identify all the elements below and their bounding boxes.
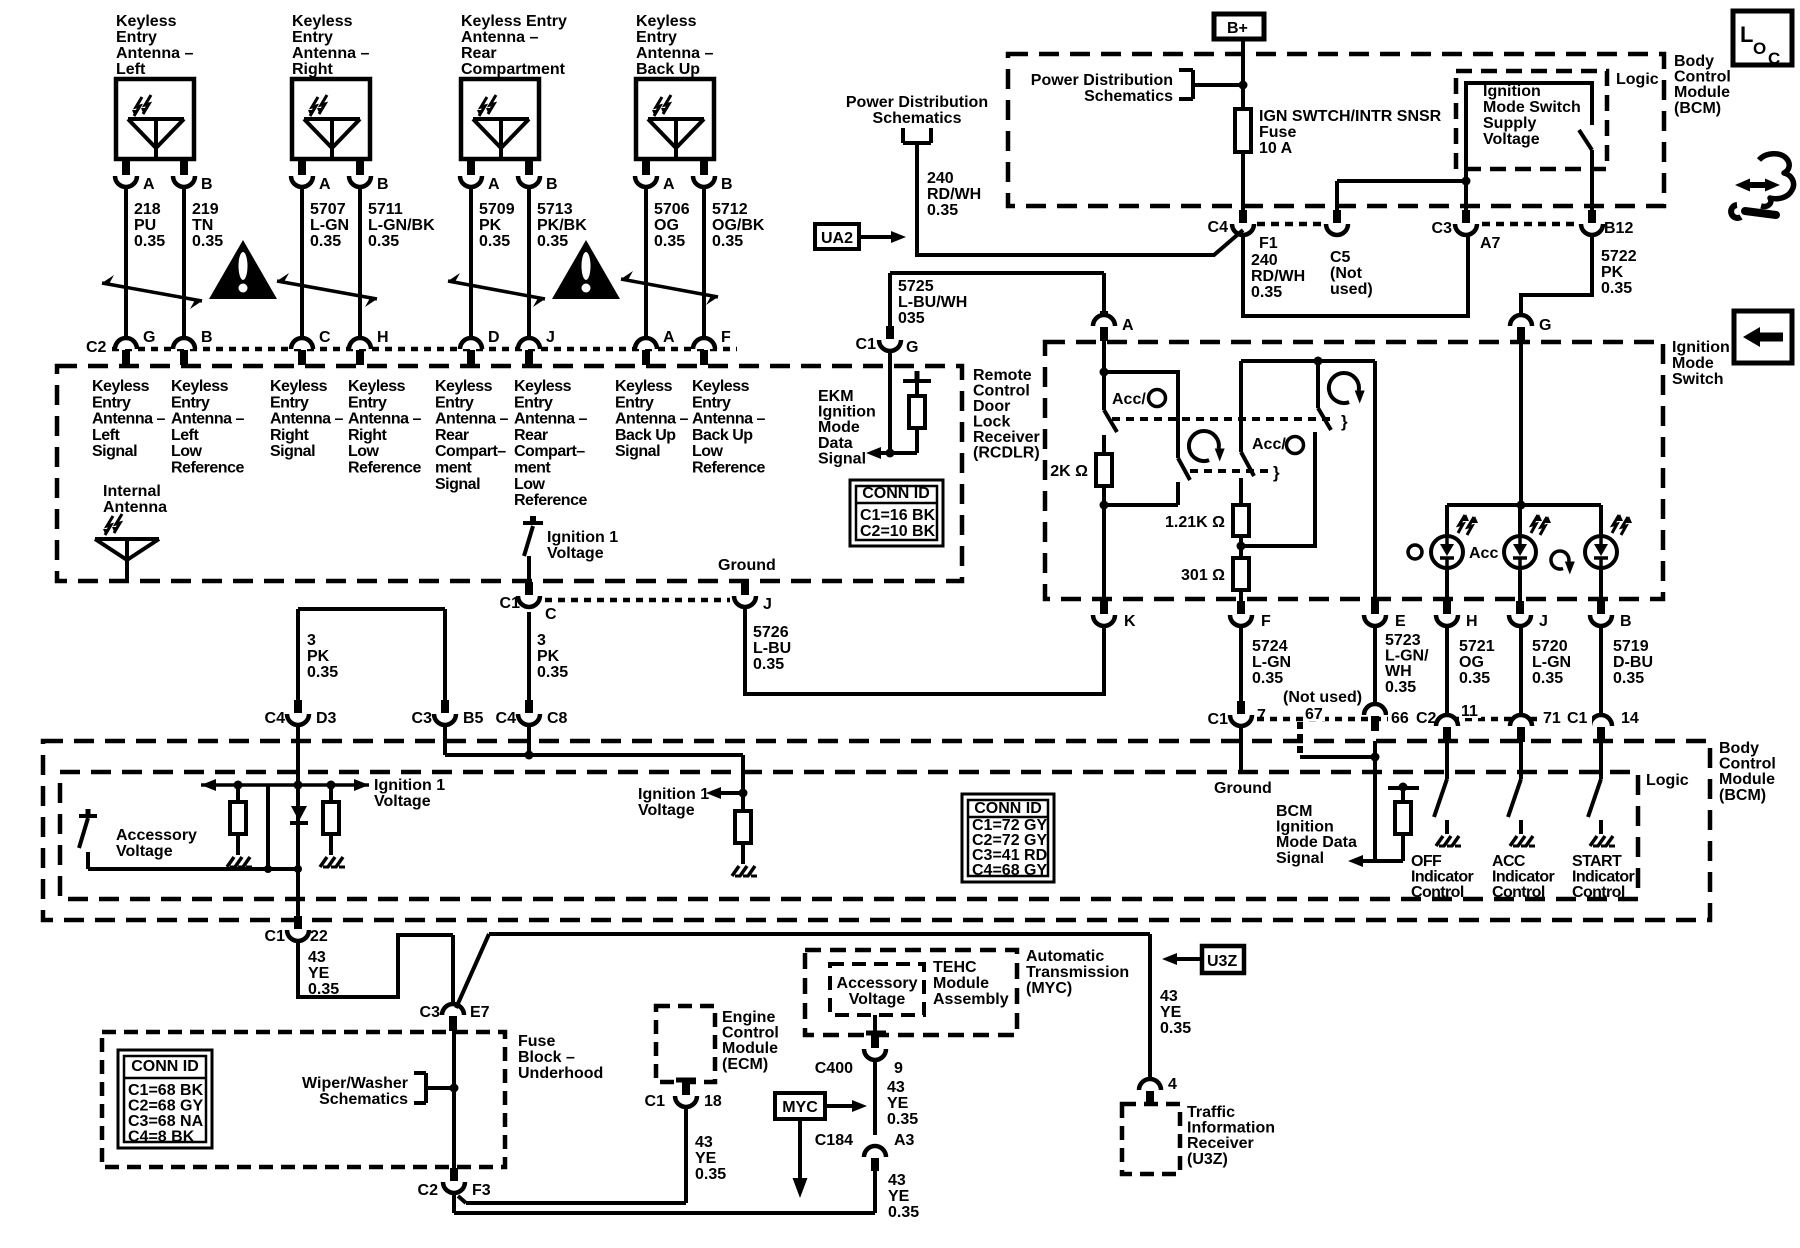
svg-text:RD/WH: RD/WH: [927, 186, 981, 203]
svg-text:Keyless: Keyless: [636, 13, 697, 30]
svg-text:0.35: 0.35: [1601, 280, 1632, 297]
svg-text:Voltage: Voltage: [374, 793, 431, 810]
svg-text:5722: 5722: [1601, 248, 1637, 265]
svg-text:Compartment: Compartment: [461, 61, 566, 78]
svg-text:Entry: Entry: [270, 394, 309, 411]
svg-text:A: A: [488, 176, 500, 193]
svg-text:L-GN: L-GN: [1532, 654, 1571, 671]
svg-text:Signal: Signal: [818, 450, 866, 467]
svg-text:0.35: 0.35: [1459, 670, 1490, 687]
svg-text:3: 3: [537, 632, 546, 649]
svg-text:Logic: Logic: [1646, 772, 1689, 789]
svg-text:22: 22: [310, 928, 328, 945]
svg-text:Low: Low: [348, 443, 380, 460]
svg-text:18: 18: [704, 1093, 722, 1110]
svg-text:Body: Body: [1719, 740, 1759, 757]
svg-text:TEHC: TEHC: [933, 959, 977, 976]
svg-text:(MYC): (MYC): [1026, 980, 1072, 997]
svg-text:Entry: Entry: [615, 394, 654, 411]
svg-text:Ground: Ground: [1214, 780, 1272, 797]
svg-text:0.35: 0.35: [537, 233, 568, 250]
svg-text:C1=68 BK: C1=68 BK: [128, 1082, 204, 1099]
svg-text:Ignition 1: Ignition 1: [638, 786, 709, 803]
svg-text:OG: OG: [1459, 654, 1484, 671]
svg-text:}: }: [1273, 463, 1280, 482]
svg-text:ment: ment: [435, 460, 472, 477]
svg-text:L-GN: L-GN: [1252, 654, 1291, 671]
svg-text:Receiver: Receiver: [1187, 1135, 1254, 1152]
svg-text:301 Ω: 301 Ω: [1181, 567, 1225, 584]
svg-text:B: B: [1620, 613, 1632, 630]
svg-text:H: H: [377, 329, 389, 346]
svg-text:Block –: Block –: [518, 1049, 575, 1066]
svg-text:0.35: 0.35: [368, 233, 399, 250]
svg-text:Schematics: Schematics: [1084, 88, 1173, 105]
svg-text:035: 035: [898, 310, 925, 327]
svg-text:Right: Right: [292, 61, 334, 78]
svg-text:Mode: Mode: [1672, 355, 1714, 372]
svg-text:7: 7: [1257, 707, 1266, 724]
svg-text:4: 4: [1168, 1076, 1177, 1093]
svg-text:Module: Module: [1674, 84, 1730, 101]
svg-text:C1: C1: [1208, 711, 1229, 728]
svg-text:Antenna –: Antenna –: [435, 411, 508, 428]
svg-text:3: 3: [307, 632, 316, 649]
svg-text:used): used): [1330, 281, 1373, 298]
svg-text:CONN ID: CONN ID: [862, 485, 930, 502]
svg-text:Ground: Ground: [718, 557, 776, 574]
svg-text:A: A: [1122, 317, 1134, 334]
svg-text:Right: Right: [348, 427, 388, 444]
svg-text:C3=68 NA: C3=68 NA: [128, 1113, 204, 1130]
svg-text:0.35: 0.35: [654, 233, 685, 250]
svg-text:(Not: (Not: [1330, 265, 1363, 282]
svg-text:5712: 5712: [712, 201, 748, 218]
svg-text:B: B: [201, 329, 213, 346]
svg-text:Acc: Acc: [1469, 545, 1498, 562]
svg-text:E7: E7: [470, 1004, 490, 1021]
svg-text:C: C: [319, 329, 331, 346]
svg-text:Keyless: Keyless: [171, 378, 229, 395]
svg-text:Keyless: Keyless: [348, 378, 406, 395]
svg-text:Entry: Entry: [171, 394, 210, 411]
svg-text:Remote: Remote: [973, 367, 1032, 384]
svg-text:OG/BK: OG/BK: [712, 217, 765, 234]
svg-text:BCM: BCM: [1276, 803, 1312, 820]
svg-text:240: 240: [927, 170, 954, 187]
svg-text:Module: Module: [933, 975, 989, 992]
svg-text:OFF: OFF: [1411, 853, 1442, 870]
svg-text:219: 219: [192, 201, 219, 218]
svg-text:Left: Left: [116, 61, 146, 78]
svg-text:Ignition: Ignition: [1483, 83, 1541, 100]
svg-text:5721: 5721: [1459, 638, 1495, 655]
svg-text:Automatic: Automatic: [1026, 948, 1104, 965]
svg-text:B: B: [546, 176, 558, 193]
svg-text:Low: Low: [692, 443, 724, 460]
svg-text:66: 66: [1391, 710, 1409, 727]
svg-text:J: J: [546, 329, 555, 346]
svg-text:Signal: Signal: [270, 443, 315, 460]
svg-text:Back Up: Back Up: [636, 61, 700, 78]
svg-text:Keyless: Keyless: [292, 13, 353, 30]
svg-text:C1: C1: [1567, 710, 1588, 727]
svg-text:Ignition 1: Ignition 1: [547, 529, 618, 546]
svg-text:C184: C184: [815, 1132, 853, 1149]
svg-text:ment: ment: [514, 460, 551, 477]
svg-text:Compart–: Compart–: [514, 443, 585, 460]
svg-text:B: B: [721, 176, 733, 193]
svg-text:10 A: 10 A: [1259, 140, 1293, 157]
svg-text:Antenna –: Antenna –: [461, 29, 538, 46]
svg-text:Control: Control: [1719, 756, 1776, 773]
svg-text:Back Up: Back Up: [692, 427, 753, 444]
svg-text:F1: F1: [1259, 235, 1278, 252]
svg-text:(BCM): (BCM): [1719, 787, 1766, 804]
svg-text:Antenna –: Antenna –: [92, 411, 165, 428]
svg-text:Reference: Reference: [514, 492, 587, 509]
svg-text:Keyless: Keyless: [615, 378, 673, 395]
svg-text:Voltage: Voltage: [547, 545, 604, 562]
svg-text:Left: Left: [92, 427, 121, 444]
svg-text:G: G: [906, 339, 918, 356]
svg-text:Antenna –: Antenna –: [292, 45, 369, 62]
svg-text:YE: YE: [888, 1188, 910, 1205]
svg-text:PK: PK: [1601, 264, 1624, 281]
svg-text:0.35: 0.35: [310, 233, 341, 250]
svg-text:Keyless: Keyless: [514, 378, 572, 395]
svg-text:C2=10 BK: C2=10 BK: [860, 523, 936, 540]
svg-text:L: L: [1740, 22, 1753, 47]
svg-text:EKM: EKM: [818, 388, 854, 405]
svg-text:Underhood: Underhood: [518, 1065, 603, 1082]
svg-text:PK: PK: [479, 217, 502, 234]
svg-text:0.35: 0.35: [134, 233, 165, 250]
svg-text:(RCDLR): (RCDLR): [973, 445, 1040, 462]
svg-text:Entry: Entry: [435, 394, 474, 411]
svg-text:Entry: Entry: [514, 394, 553, 411]
svg-text:YE: YE: [695, 1150, 717, 1167]
svg-text:Accessory: Accessory: [116, 827, 197, 844]
svg-text:Rear: Rear: [461, 45, 497, 62]
svg-text:5719: 5719: [1613, 638, 1649, 655]
svg-text:Schematics: Schematics: [319, 1091, 408, 1108]
svg-text:Antenna –: Antenna –: [348, 411, 421, 428]
svg-text:Indicator: Indicator: [1572, 869, 1635, 886]
svg-text:Entry: Entry: [692, 394, 731, 411]
svg-text:L-GN: L-GN: [310, 217, 349, 234]
svg-text:Ignition: Ignition: [818, 404, 876, 421]
svg-text:C2: C2: [1416, 710, 1437, 727]
svg-text:B: B: [201, 176, 213, 193]
svg-text:0.35: 0.35: [927, 202, 958, 219]
svg-text:PK: PK: [537, 648, 560, 665]
svg-text:Acc/: Acc/: [1252, 436, 1286, 453]
svg-text:C2=68 GY: C2=68 GY: [128, 1098, 203, 1115]
svg-text:Ignition: Ignition: [1276, 819, 1334, 836]
svg-text:Antenna –: Antenna –: [692, 411, 765, 428]
svg-text:Antenna –: Antenna –: [615, 411, 688, 428]
svg-text:Control: Control: [1411, 884, 1464, 901]
svg-text:Back Up: Back Up: [615, 427, 676, 444]
svg-text:OG: OG: [654, 217, 679, 234]
svg-text:(Not used): (Not used): [1283, 689, 1362, 706]
svg-text:43: 43: [888, 1172, 906, 1189]
svg-text:Module: Module: [722, 1040, 778, 1057]
svg-text:Signal: Signal: [92, 443, 137, 460]
svg-text:C4=68 GY: C4=68 GY: [972, 862, 1047, 879]
svg-text:A7: A7: [1480, 235, 1501, 252]
svg-text:Fuse: Fuse: [1259, 124, 1296, 141]
svg-text:Antenna: Antenna: [103, 499, 167, 516]
svg-text:71: 71: [1543, 710, 1561, 727]
svg-text:0.35: 0.35: [753, 656, 784, 673]
svg-text:5709: 5709: [479, 201, 515, 218]
svg-text:C3: C3: [1432, 220, 1453, 237]
svg-text:5707: 5707: [310, 201, 346, 218]
svg-text:0.35: 0.35: [1252, 670, 1283, 687]
svg-text:C3: C3: [412, 710, 433, 727]
svg-text:Rear: Rear: [514, 427, 548, 444]
svg-text:(ECM): (ECM): [722, 1056, 768, 1073]
svg-text:F: F: [721, 329, 731, 346]
svg-text:ACC: ACC: [1492, 853, 1526, 870]
svg-text:Indicator: Indicator: [1411, 869, 1474, 886]
svg-text:Signal: Signal: [615, 443, 660, 460]
svg-text:G: G: [1539, 317, 1551, 334]
svg-text:0.35: 0.35: [887, 1111, 918, 1128]
svg-text:Control: Control: [1674, 69, 1731, 86]
svg-text:Reference: Reference: [692, 460, 765, 477]
svg-text:B5: B5: [463, 710, 484, 727]
svg-text:Mode Data: Mode Data: [1276, 834, 1357, 851]
svg-text:0.35: 0.35: [537, 664, 568, 681]
svg-text:0.35: 0.35: [888, 1204, 919, 1221]
svg-text:0.35: 0.35: [192, 233, 223, 250]
svg-text:Signal: Signal: [1276, 850, 1324, 867]
svg-text:L-BU: L-BU: [753, 640, 791, 657]
svg-text:K: K: [1124, 613, 1136, 630]
svg-text:U3Z: U3Z: [1207, 953, 1237, 970]
svg-text:Ignition: Ignition: [1672, 339, 1730, 356]
svg-text:0.35: 0.35: [1532, 670, 1563, 687]
svg-text:0.35: 0.35: [1160, 1020, 1191, 1037]
svg-text:MYC: MYC: [782, 1099, 818, 1116]
svg-text:Control: Control: [1572, 884, 1625, 901]
svg-text:YE: YE: [1160, 1004, 1182, 1021]
svg-text:Entry: Entry: [292, 29, 333, 46]
svg-text:A: A: [663, 176, 675, 193]
svg-text:43: 43: [695, 1134, 713, 1151]
svg-text:Antenna –: Antenna –: [270, 411, 343, 428]
svg-text:2K Ω: 2K Ω: [1050, 463, 1088, 480]
svg-text:PK/BK: PK/BK: [537, 217, 587, 234]
svg-text:Control: Control: [722, 1025, 779, 1042]
svg-text:5706: 5706: [654, 201, 690, 218]
svg-text:0.35: 0.35: [1613, 670, 1644, 687]
svg-text:Entry: Entry: [636, 29, 677, 46]
svg-text:Control: Control: [1492, 884, 1545, 901]
svg-text:Ignition 1: Ignition 1: [374, 777, 445, 794]
svg-text:Accessory: Accessory: [837, 975, 918, 992]
svg-text:Power Distribution: Power Distribution: [1031, 72, 1173, 89]
svg-text:Reference: Reference: [171, 460, 244, 477]
svg-text:F: F: [1261, 613, 1271, 630]
svg-text:Assembly: Assembly: [933, 991, 1009, 1008]
svg-text:TN: TN: [192, 217, 213, 234]
svg-text:Reference: Reference: [348, 460, 421, 477]
svg-text:5724: 5724: [1252, 638, 1288, 655]
svg-text:Power Distribution: Power Distribution: [846, 94, 988, 111]
svg-text:0.35: 0.35: [1251, 284, 1282, 301]
svg-text:Keyless: Keyless: [116, 13, 177, 30]
svg-text:5726: 5726: [753, 624, 789, 641]
svg-text:67: 67: [1305, 706, 1323, 723]
svg-text:5725: 5725: [898, 278, 934, 295]
svg-text:Voltage: Voltage: [638, 802, 695, 819]
svg-text:Entry: Entry: [116, 29, 157, 46]
svg-text:A: A: [319, 176, 331, 193]
svg-text:Engine: Engine: [722, 1009, 775, 1026]
svg-text:0.35: 0.35: [479, 233, 510, 250]
svg-text:O: O: [1753, 39, 1766, 58]
svg-text:E: E: [1395, 613, 1406, 630]
svg-text:D3: D3: [316, 710, 337, 727]
svg-text:Low: Low: [514, 476, 546, 493]
svg-text:Transmission: Transmission: [1026, 964, 1129, 981]
svg-text:YE: YE: [308, 965, 330, 982]
svg-text:Module: Module: [1719, 771, 1775, 788]
svg-text:Logic: Logic: [1616, 71, 1659, 88]
svg-text:Signal: Signal: [435, 476, 480, 493]
svg-text:H: H: [1466, 613, 1478, 630]
svg-text:IGN SWTCH/INTR SNSR: IGN SWTCH/INTR SNSR: [1259, 108, 1442, 125]
svg-text:Data: Data: [818, 435, 853, 452]
svg-text:L-GN/BK: L-GN/BK: [368, 217, 435, 234]
svg-text:C1: C1: [645, 1093, 666, 1110]
svg-text:Body: Body: [1674, 53, 1714, 70]
svg-text:Voltage: Voltage: [849, 991, 906, 1008]
svg-text:C4=8 BK: C4=8 BK: [128, 1129, 195, 1146]
svg-text:C1: C1: [265, 928, 286, 945]
svg-text:C8: C8: [547, 710, 568, 727]
svg-text:Antenna –: Antenna –: [636, 45, 713, 62]
svg-text:C: C: [545, 606, 557, 623]
svg-text:WH: WH: [1385, 663, 1412, 680]
svg-text:Traffic: Traffic: [1187, 1104, 1235, 1121]
svg-text:Entry: Entry: [92, 394, 131, 411]
svg-text:5711: 5711: [368, 201, 403, 218]
svg-text:43: 43: [887, 1079, 905, 1096]
svg-text:1.21K Ω: 1.21K Ω: [1165, 514, 1225, 531]
svg-text:Fuse: Fuse: [518, 1033, 555, 1050]
svg-text:CONN ID: CONN ID: [131, 1058, 199, 1075]
svg-text:A3: A3: [894, 1132, 915, 1149]
svg-text:0.35: 0.35: [307, 664, 338, 681]
svg-text:Keyless: Keyless: [692, 378, 750, 395]
svg-text:C4: C4: [1208, 219, 1229, 236]
svg-text:0.35: 0.35: [712, 233, 743, 250]
svg-text:Voltage: Voltage: [116, 843, 173, 860]
svg-text:Compart–: Compart–: [435, 443, 506, 460]
svg-text:Supply: Supply: [1483, 115, 1536, 132]
svg-text:J: J: [1539, 613, 1548, 630]
svg-text:C5: C5: [1330, 249, 1351, 266]
svg-text:B: B: [377, 176, 389, 193]
svg-text:D-BU: D-BU: [1613, 654, 1653, 671]
svg-text:RD/WH: RD/WH: [1251, 268, 1305, 285]
svg-text:CONN ID: CONN ID: [974, 800, 1042, 817]
svg-text:Schematics: Schematics: [873, 110, 962, 127]
svg-text:Door: Door: [973, 398, 1010, 415]
svg-text:5720: 5720: [1532, 638, 1568, 655]
svg-text:C: C: [1768, 49, 1780, 68]
svg-text:5713: 5713: [537, 201, 573, 218]
svg-text:Keyless: Keyless: [270, 378, 328, 395]
svg-text:11: 11: [1461, 703, 1478, 720]
svg-text:L-BU/WH: L-BU/WH: [898, 294, 967, 311]
svg-text:Internal: Internal: [103, 483, 161, 500]
svg-text:Right: Right: [270, 427, 310, 444]
svg-text:C4: C4: [496, 710, 517, 727]
svg-text:43: 43: [1160, 988, 1178, 1005]
svg-text:B+: B+: [1227, 20, 1248, 37]
svg-text:Information: Information: [1187, 1120, 1275, 1137]
svg-text:START: START: [1572, 853, 1622, 870]
svg-text:YE: YE: [887, 1095, 909, 1112]
svg-text:(BCM): (BCM): [1674, 100, 1721, 117]
svg-text:Indicator: Indicator: [1492, 869, 1555, 886]
svg-text:Mode: Mode: [818, 419, 860, 436]
svg-text:9: 9: [894, 1060, 903, 1077]
svg-text:L-GN/: L-GN/: [1385, 648, 1429, 665]
svg-text:Voltage: Voltage: [1483, 131, 1540, 148]
svg-text:Control: Control: [973, 383, 1030, 400]
svg-text:218: 218: [134, 201, 161, 218]
svg-text:F3: F3: [472, 1182, 491, 1199]
svg-text:(U3Z): (U3Z): [1187, 1151, 1228, 1168]
svg-text:Mode Switch: Mode Switch: [1483, 99, 1581, 116]
svg-text:Entry: Entry: [348, 394, 387, 411]
svg-text:14: 14: [1621, 710, 1639, 727]
svg-text:Low: Low: [171, 443, 203, 460]
svg-text:}: }: [1341, 412, 1348, 431]
svg-text:5723: 5723: [1385, 632, 1421, 649]
svg-text:Keyless: Keyless: [435, 378, 493, 395]
svg-text:J: J: [763, 596, 772, 613]
svg-text:Wiper/Washer: Wiper/Washer: [302, 1075, 408, 1092]
svg-text:Antenna –: Antenna –: [116, 45, 193, 62]
svg-text:C3: C3: [420, 1004, 441, 1021]
svg-text:G: G: [143, 329, 155, 346]
svg-text:C2: C2: [86, 339, 107, 356]
svg-text:C2: C2: [418, 1182, 439, 1199]
svg-text:C1: C1: [856, 336, 877, 353]
svg-text:B12: B12: [1604, 220, 1633, 237]
svg-text:Rear: Rear: [435, 427, 469, 444]
svg-text:Left: Left: [171, 427, 200, 444]
svg-text:A: A: [143, 176, 155, 193]
svg-text:Switch: Switch: [1672, 371, 1724, 388]
svg-text:0.35: 0.35: [1385, 679, 1416, 696]
svg-text:C1: C1: [500, 595, 521, 612]
svg-text:240: 240: [1251, 252, 1278, 269]
svg-text:PU: PU: [134, 217, 156, 234]
svg-text:Keyless: Keyless: [92, 378, 150, 395]
svg-text:C400: C400: [815, 1060, 853, 1077]
svg-text:PK: PK: [307, 648, 330, 665]
svg-text:C4: C4: [265, 710, 286, 727]
